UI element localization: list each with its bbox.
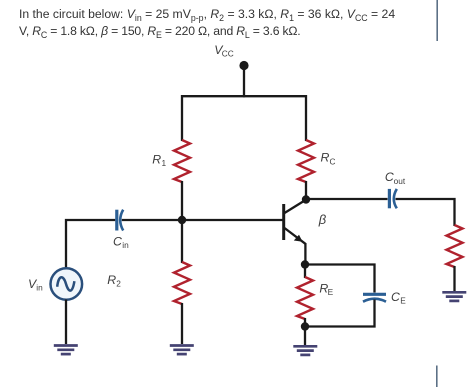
- wire junction to R2: [181, 220, 183, 263]
- svg-text:1: 1: [162, 158, 167, 168]
- wire R1 to input rail: [181, 181, 183, 221]
- wire RE to bottom node: [304, 318, 306, 327]
- resistor RE: [297, 277, 313, 319]
- label beta: [318, 212, 327, 227]
- resistor R1: [174, 140, 190, 182]
- svg-text:C: C: [385, 170, 394, 184]
- wire R2 to ground: [181, 303, 183, 344]
- node junction dot at R1/R2/base: [178, 216, 186, 224]
- wire emitter down: [304, 243, 306, 265]
- capacitor Cin: [117, 210, 123, 231]
- wire Cout to RL: [396, 199, 455, 226]
- problem statement line 1: [19, 6, 395, 23]
- node collector dot: [302, 195, 310, 203]
- wire bottom node to ground: [304, 327, 306, 346]
- transistor Q1 collector lead: [285, 200, 306, 213]
- ground under emitter: [293, 346, 317, 355]
- wire collector to Cout: [306, 198, 388, 200]
- label R1: [152, 153, 166, 169]
- svg-text:in: in: [36, 283, 43, 293]
- transistor Q1 emitter lead with arrow: [285, 228, 306, 244]
- transistor Q1 base bar: [282, 204, 285, 240]
- label Cout: [385, 170, 406, 186]
- label Vin: [28, 277, 43, 293]
- svg-text:E: E: [328, 287, 334, 297]
- capacitor CE: [363, 294, 386, 301]
- source Vin circle with sine: [51, 268, 83, 300]
- wire emitter rail to CE branch: [305, 265, 375, 293]
- svg-text:R: R: [107, 273, 116, 287]
- resistor R2: [174, 262, 190, 304]
- node VCC dot: [239, 61, 248, 70]
- svg-text:out: out: [394, 176, 406, 186]
- wire VCC stem: [243, 66, 245, 98]
- ground under R2: [170, 346, 194, 355]
- label CE: [391, 290, 406, 306]
- wire input rail left of Cin: [66, 220, 115, 268]
- ground under Vin: [54, 346, 78, 355]
- svg-text:E: E: [400, 296, 406, 306]
- svg-text:R: R: [152, 153, 161, 167]
- svg-text:2: 2: [116, 279, 121, 289]
- page divider rule bottom segment: [436, 366, 438, 387]
- wire CE bottom to bottom rail: [305, 300, 375, 327]
- svg-text:β: β: [318, 212, 327, 227]
- capacitor Cout: [389, 189, 396, 208]
- wire Vin to ground: [65, 300, 67, 345]
- label RE: [319, 282, 333, 298]
- label Cin: [113, 234, 129, 250]
- wire RL to ground: [453, 266, 455, 291]
- ground under RL: [442, 292, 466, 301]
- svg-text:C: C: [391, 290, 400, 304]
- resistor RL: [447, 225, 463, 267]
- page divider rule top segment: [436, 0, 438, 41]
- svg-text:in: in: [122, 240, 129, 250]
- node bottom dot: [301, 322, 309, 330]
- problem statement line 2: [19, 23, 301, 40]
- svg-text:C: C: [113, 234, 122, 248]
- label R2: [107, 273, 121, 289]
- node emitter dot: [301, 260, 309, 268]
- resistor RC: [298, 140, 314, 182]
- svg-text:CC: CC: [222, 49, 234, 59]
- svg-text:C: C: [330, 156, 336, 166]
- svg-text:R: R: [321, 151, 330, 165]
- wire input rail right of Cin (base wire): [122, 219, 283, 221]
- label VCC: [214, 43, 233, 59]
- label RC: [321, 151, 336, 167]
- wire top rail: [182, 96, 306, 141]
- wire emitter dot to RE: [304, 265, 306, 279]
- wire RC to collector node: [305, 181, 307, 200]
